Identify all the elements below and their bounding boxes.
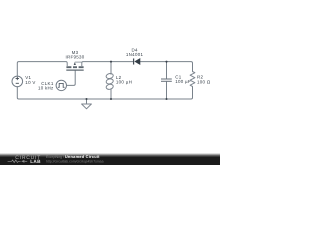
capacitor C1 xyxy=(161,79,172,81)
V1 plus sign xyxy=(16,77,19,80)
voltage source V1 xyxy=(12,76,23,87)
mosfet M3 (PMOS IRF9530) xyxy=(66,62,84,70)
junction node: C1 top xyxy=(165,61,167,63)
M3 gate bar xyxy=(66,69,83,71)
inductor L2 xyxy=(106,73,114,90)
wire: CLK1 output to M3 gate xyxy=(67,70,76,85)
C1 bottom plate xyxy=(161,80,172,82)
logo diode arrow xyxy=(21,160,24,163)
svg-text:IRF9530: IRF9530 xyxy=(65,55,84,60)
diode D4 1N4001 xyxy=(134,58,140,64)
M3 source stub xyxy=(66,62,67,66)
junction node: L2 top xyxy=(110,61,112,63)
wire: ground stub xyxy=(86,99,88,104)
logo lead-out wire xyxy=(25,160,28,162)
junction node: L2 bottom xyxy=(110,98,112,100)
logo resistor zigzag xyxy=(8,160,21,163)
wire: top rail from M3 drain stub to diode cathode xyxy=(83,61,134,63)
svg-text:http://circuitlab.com/c/crkqs4: http://circuitlab.com/c/crkqs45h7smaa xyxy=(46,159,104,163)
junction node: ground xyxy=(85,98,87,100)
svg-text:10 kHz: 10 kHz xyxy=(38,86,54,91)
M3 channel dashes xyxy=(66,66,83,68)
svg-text:100 µF: 100 µF xyxy=(175,79,191,84)
D4 anode triangle xyxy=(135,59,140,65)
svg-text:1N4001: 1N4001 xyxy=(126,52,144,57)
V1 circle body xyxy=(12,76,23,87)
C1 top plate xyxy=(161,78,172,80)
D4 cathode bar xyxy=(133,58,135,64)
wire: left vertical below V1, bottom rail, and R2 bottom lead xyxy=(17,87,192,100)
wire: top rail left segment (V1 to M3 source stub) xyxy=(17,62,66,76)
wire: C1 top stub xyxy=(166,62,168,79)
svg-text:100 µH: 100 µH xyxy=(116,80,132,85)
M3 body arrow xyxy=(75,61,82,63)
resistor R2 xyxy=(190,72,195,87)
junction node: C1 bottom xyxy=(165,98,167,100)
M3 drain stub xyxy=(82,62,83,66)
wire: C1 bottom stub xyxy=(166,82,168,99)
CLK1 square-wave glyph xyxy=(58,83,65,87)
svg-text:LAB: LAB xyxy=(30,159,41,164)
wire: L2 top lead xyxy=(110,62,112,75)
clock source CLK1 xyxy=(56,80,66,90)
svg-text:10 V: 10 V xyxy=(25,80,35,85)
ground symbol xyxy=(82,104,92,109)
CircuitLab logo zigzag + LAB xyxy=(8,159,42,164)
wire: L2 bottom lead xyxy=(110,89,112,99)
CLK1 circle body xyxy=(56,80,66,90)
V1 minus sign xyxy=(16,82,19,84)
wire: top rail from diode anode to top-right corner down to R2 xyxy=(140,62,192,72)
svg-text:100 Ω: 100 Ω xyxy=(197,79,211,84)
